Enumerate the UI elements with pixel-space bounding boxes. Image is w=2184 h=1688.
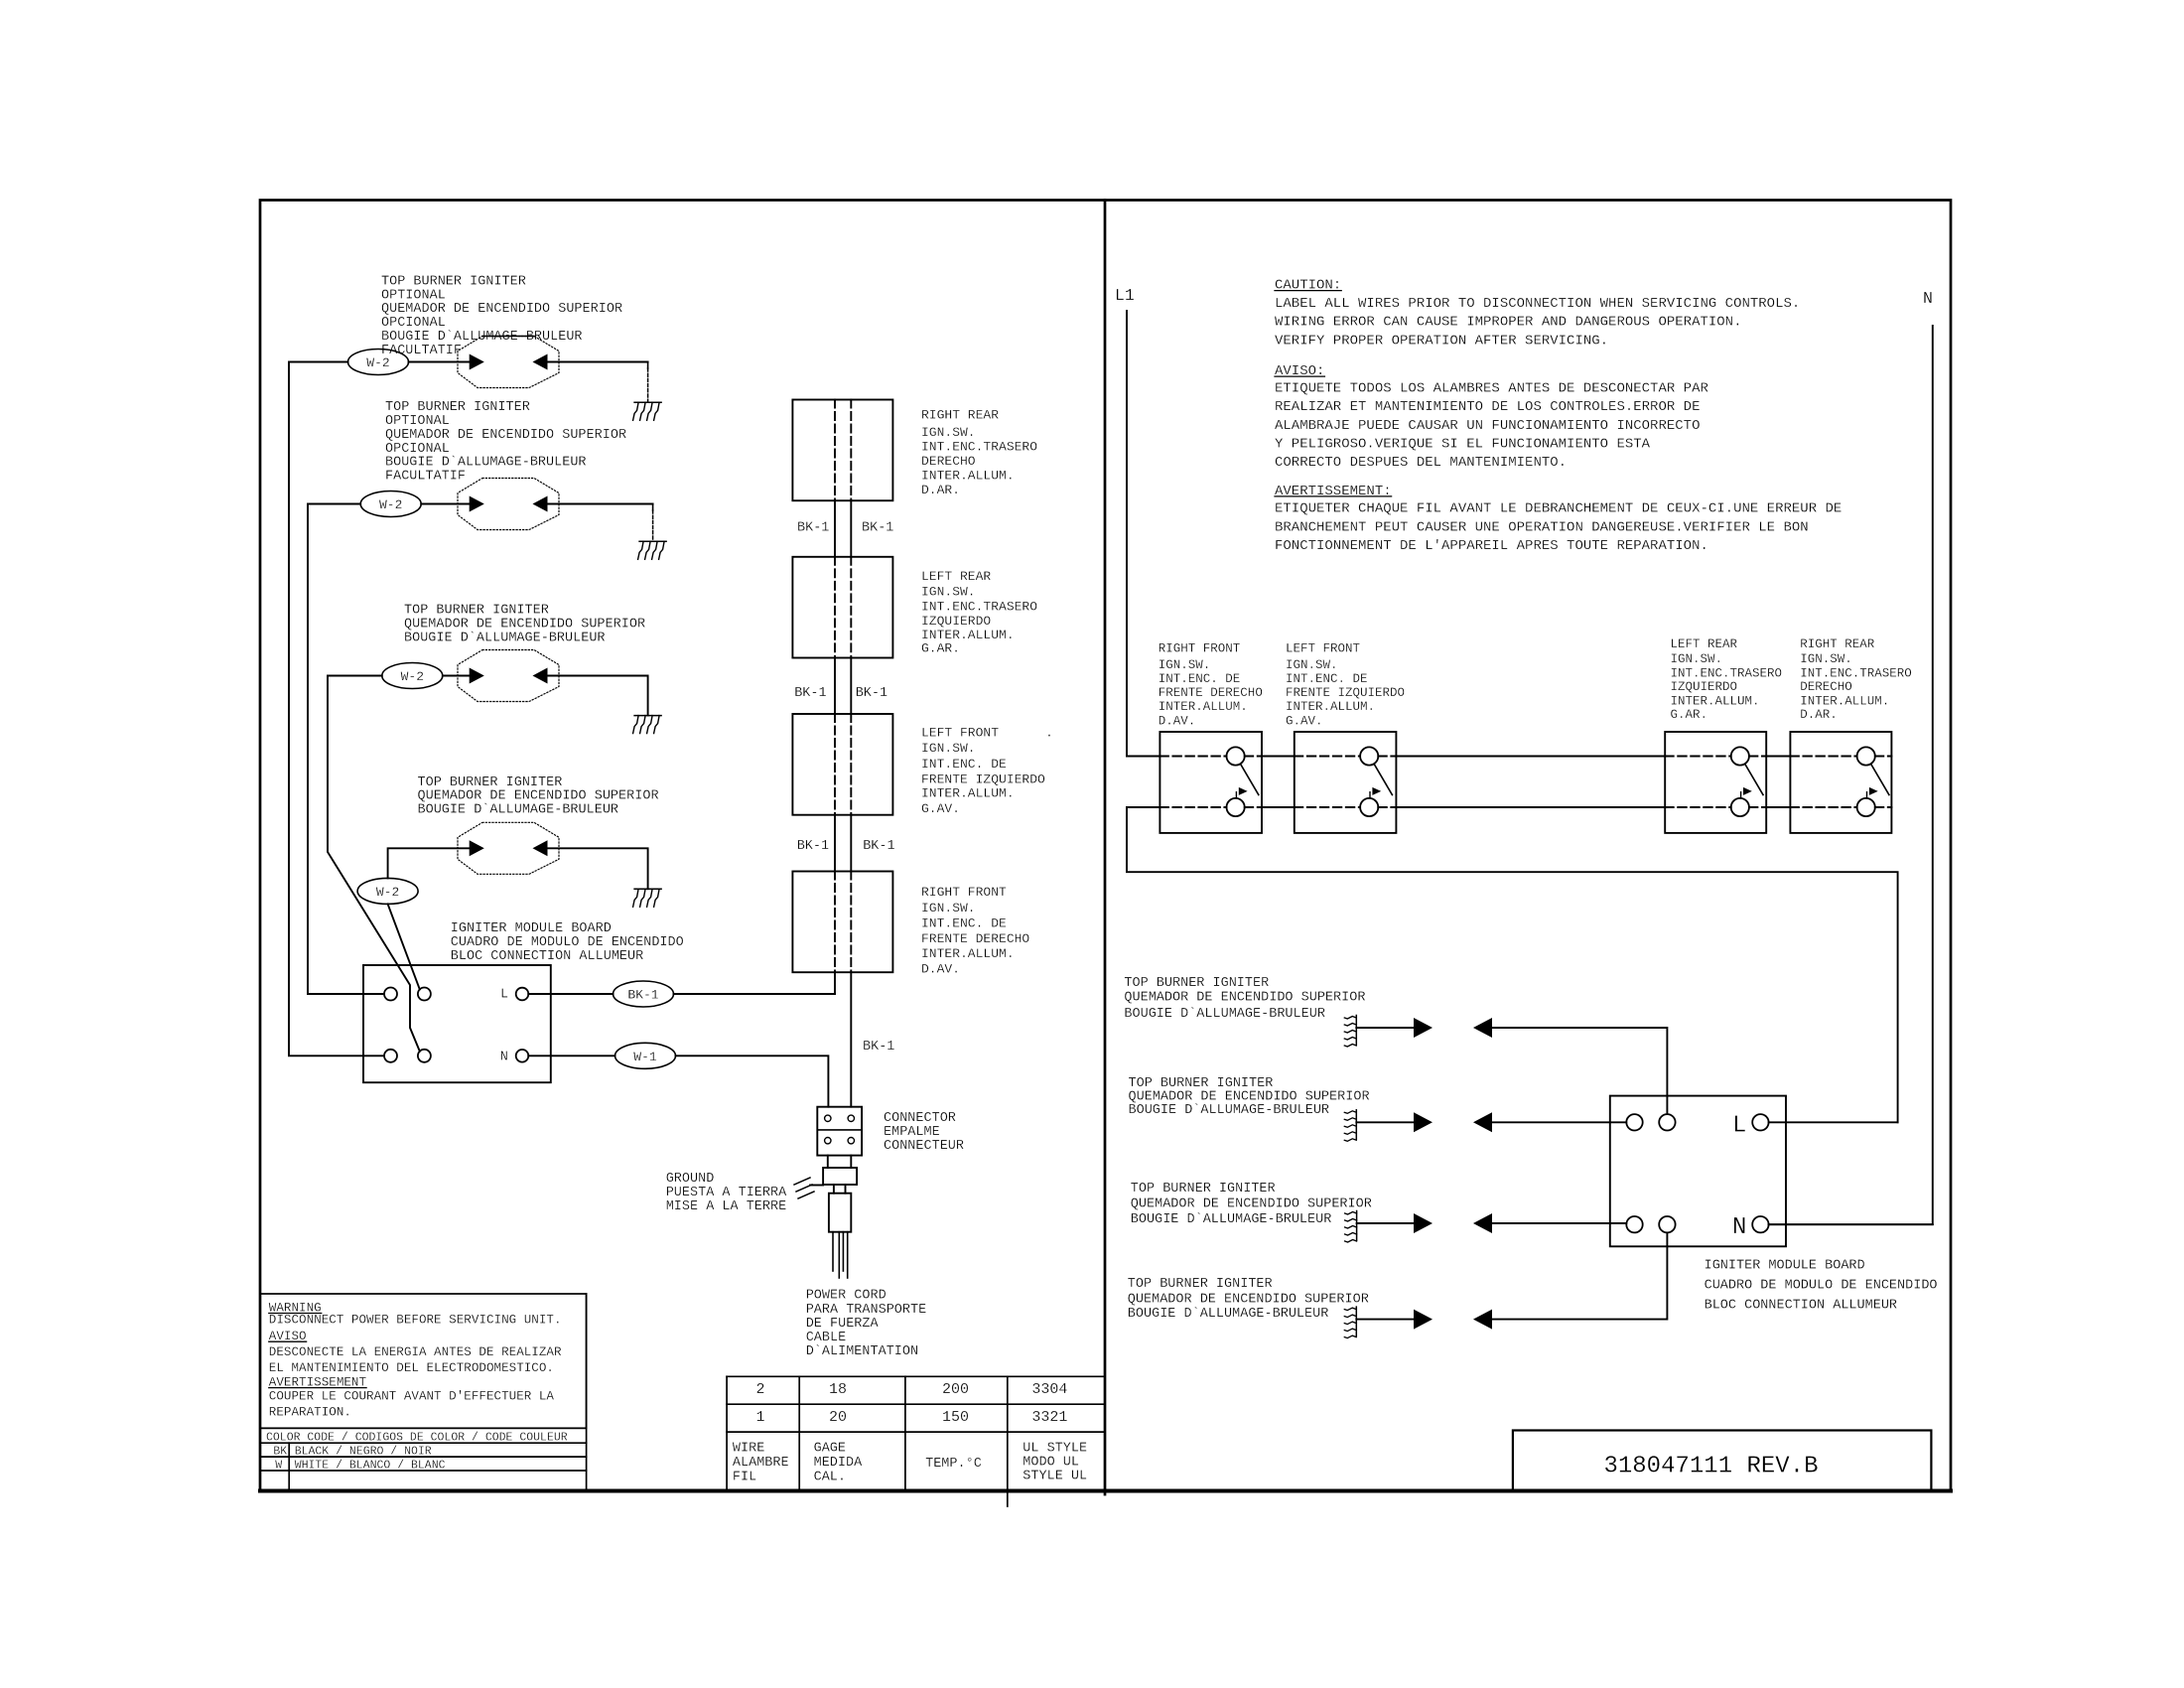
module right terminal col2 top [1659, 1114, 1675, 1130]
wire top row dashed in box [1790, 756, 1856, 758]
svg-text:RIGHT FRONT: RIGHT FRONT [1159, 642, 1241, 656]
svg-text:D.AV.: D.AV. [921, 962, 960, 977]
svg-text:UL STYLE: UL STYLE [1023, 1441, 1087, 1456]
module right terminal col1 top [1626, 1114, 1642, 1130]
svg-text:INT.ENC.TRASERO: INT.ENC.TRASERO [921, 599, 1037, 614]
svg-text:INTER.ALLUM.: INTER.ALLUM. [1286, 700, 1375, 714]
wire top row dashed in box [1295, 756, 1360, 758]
svg-text:OPTIONAL: OPTIONAL [381, 288, 446, 303]
svg-text:PUESTA A TIERRA: PUESTA A TIERRA [666, 1186, 787, 1200]
svg-text:W-2: W-2 [376, 885, 399, 900]
svg-text:W-2: W-2 [379, 497, 402, 512]
svg-text:INT.ENC.TRASERO: INT.ENC.TRASERO [1671, 666, 1783, 680]
wire left column below box 4 to L row [674, 972, 835, 994]
svg-text:IGN.SW.: IGN.SW. [1286, 658, 1338, 672]
svg-text:QUEMADOR DE ENCENDIDO SUPERIOR: QUEMADOR DE ENCENDIDO SUPERIOR [418, 789, 659, 804]
svg-text:BK-1: BK-1 [797, 839, 829, 854]
wire W-1 oval to connector [676, 1055, 829, 1106]
svg-text:20: 20 [829, 1409, 847, 1426]
wire BK-1 dashed through box [834, 557, 836, 658]
svg-text:IGNITER MODULE BOARD: IGNITER MODULE BOARD [451, 921, 612, 936]
svg-text:PARA TRANSPORTE: PARA TRANSPORTE [806, 1303, 927, 1318]
wire L terminal right [1769, 1121, 1898, 1123]
svg-text:CUADRO DE MODULO DE ENCENDIDO: CUADRO DE MODULO DE ENCENDIDO [451, 935, 684, 950]
svg-text:BK-1: BK-1 [627, 988, 658, 1003]
svg-text:FIL: FIL [733, 1470, 756, 1484]
wire ground to spark arrow [1356, 1121, 1414, 1123]
oval W-2 igniter 1 [348, 350, 409, 375]
svg-text:BLOC CONNECTION ALLUMEUR: BLOC CONNECTION ALLUMEUR [451, 949, 643, 964]
svg-text:TOP BURNER IGNITER: TOP BURNER IGNITER [1124, 976, 1269, 991]
svg-text:INTER.ALLUM.: INTER.ALLUM. [1671, 694, 1760, 708]
oval W-2 igniter 2 [360, 492, 421, 517]
wire bottom row solid segments [1127, 806, 1160, 808]
svg-text:200: 200 [942, 1381, 969, 1398]
svg-text:ETIQUETER CHAQUE FIL AVANT LE: ETIQUETER CHAQUE FIL AVANT LE DEBRANCHEM… [1275, 501, 1842, 517]
switch left rear actuator arrow [1740, 792, 1742, 798]
svg-text:CONNECTEUR: CONNECTEUR [884, 1139, 964, 1154]
svg-text:2: 2 [755, 1381, 764, 1398]
svg-text:G.AV.: G.AV. [1286, 715, 1323, 729]
ign. switch right rear box [1790, 732, 1891, 833]
wires connector to ground block [827, 1156, 829, 1168]
svg-text:BOUGIE D`ALLUMAGE-BRULEUR: BOUGIE D`ALLUMAGE-BRULEUR [385, 456, 587, 471]
svg-text:BK-1: BK-1 [794, 686, 826, 701]
svg-text:INTER.ALLUM.: INTER.ALLUM. [921, 946, 1015, 961]
svg-text:TOP BURNER IGNITER: TOP BURNER IGNITER [385, 400, 530, 415]
svg-text:L: L [500, 987, 508, 1002]
wire oval to spark gap 1 [409, 361, 470, 363]
wire L terminal to BK-1 oval [528, 993, 613, 995]
svg-text:IGN.SW.: IGN.SW. [1159, 658, 1211, 672]
spark gap igniter 1 [458, 337, 559, 388]
switch left rear bottom contact [1731, 798, 1749, 816]
oval BK-1 [614, 981, 674, 1007]
switch right front bottom contact [1227, 798, 1245, 816]
svg-text:BK-1: BK-1 [863, 839, 894, 854]
svg-text:FRENTE DERECHO: FRENTE DERECHO [921, 931, 1029, 946]
svg-text:1: 1 [755, 1409, 764, 1426]
switch right rear top contact [1857, 747, 1875, 765]
svg-text:COUPER LE COURANT AVANT D'EFFE: COUPER LE COURANT AVANT D'EFFECTUER LA [269, 1390, 555, 1404]
igniter module board right [1610, 1096, 1786, 1247]
svg-text:COLOR CODE / CODIGOS DE COLOR: COLOR CODE / CODIGOS DE COLOR / CODE COU… [266, 1432, 568, 1445]
svg-text:POWER CORD: POWER CORD [806, 1289, 887, 1304]
plug neck [833, 1185, 835, 1194]
module terminal col1 N row [384, 1050, 397, 1062]
svg-text:INT.ENC.TRASERO: INT.ENC.TRASERO [1800, 666, 1912, 680]
svg-text:FONCTIONNEMENT DE L'APPAREIL A: FONCTIONNEMENT DE L'APPAREIL APRES TOUTE… [1275, 538, 1708, 554]
wire W-2 bus igniter 2 to module L [308, 504, 384, 995]
svg-text:IGN.SW.: IGN.SW. [921, 901, 976, 915]
svg-text:IGN.SW.: IGN.SW. [1800, 652, 1852, 666]
wire BK-1 dashed through box [834, 400, 836, 501]
chassis ground igniter 4 right [1355, 1307, 1357, 1336]
switch right front top contact [1227, 747, 1245, 765]
wire N terminal to W-1 oval [528, 1055, 614, 1056]
color code table [260, 1427, 587, 1429]
svg-text:OPTIONAL: OPTIONAL [385, 414, 450, 429]
svg-text:W: W [275, 1459, 282, 1472]
chassis ground igniter 3 right [1356, 1211, 1358, 1241]
svg-text:WHITE / BLANCO / BLANC: WHITE / BLANCO / BLANC [295, 1459, 446, 1472]
svg-text:BLACK / NEGRO / NOIR: BLACK / NEGRO / NOIR [295, 1445, 432, 1458]
wire W-2 bus igniter 3 to module N col2 [328, 676, 420, 1052]
svg-text:FRENTE IZQUIERDO: FRENTE IZQUIERDO [1286, 686, 1405, 700]
svg-text:MEDIDA: MEDIDA [814, 1456, 864, 1471]
svg-text:D.AV.: D.AV. [1159, 715, 1196, 729]
svg-text:MISE A LA TERRE: MISE A LA TERRE [666, 1199, 787, 1214]
svg-text:ETIQUETE TODOS LOS ALAMBRES AN: ETIQUETE TODOS LOS ALAMBRES ANTES DE DES… [1275, 380, 1708, 396]
svg-text:STYLE UL: STYLE UL [1023, 1470, 1087, 1484]
oval W-2 igniter 3 [382, 663, 443, 689]
svg-text:N: N [500, 1050, 508, 1064]
svg-text:BK-1: BK-1 [863, 1040, 894, 1055]
svg-text:INT.ENC. DE: INT.ENC. DE [1286, 672, 1368, 686]
wire BK-1 oval to switch column [674, 993, 836, 995]
wire ground to spark arrow [1356, 1319, 1414, 1321]
svg-text:L1: L1 [1115, 286, 1135, 305]
spark gap arrows igniter 3 right [1414, 1213, 1433, 1233]
wire oval to spark gap 2 [421, 503, 470, 505]
svg-text:.: . [1045, 725, 1053, 740]
svg-text:DERECHO: DERECHO [1800, 680, 1852, 694]
igniter module board left [363, 965, 551, 1082]
svg-text:DESCONECTE LA ENERGIA ANTES DE: DESCONECTE LA ENERGIA ANTES DE REALIZAR [269, 1345, 562, 1359]
spark gap arrows igniter 2 right [1414, 1112, 1433, 1132]
chassis ground igniter 1 right [1355, 1016, 1357, 1046]
ign. switch left rear box [1665, 732, 1766, 833]
svg-text:FRENTE DERECHO: FRENTE DERECHO [1159, 686, 1263, 700]
spark gap igniter 3 [458, 650, 559, 702]
svg-text:150: 150 [942, 1409, 969, 1426]
chassis ground igniter 3 [634, 715, 661, 717]
wire spark gap 2 to ground [548, 503, 653, 505]
oval W-1 [615, 1043, 676, 1068]
switch right rear actuator arrow [1866, 792, 1868, 798]
chassis ground igniter 4 [634, 888, 661, 890]
svg-text:BOUGIE D`ALLUMAGE-BRULEUR: BOUGIE D`ALLUMAGE-BRULEUR [1128, 1307, 1329, 1322]
wire igniter 3 right to module col1 [1492, 1222, 1626, 1224]
wire top row solid segments [1127, 756, 1160, 758]
svg-text:D.AR.: D.AR. [1800, 708, 1838, 722]
wire spark gap 3 to ground [548, 676, 648, 716]
svg-text:G.AR.: G.AR. [1671, 708, 1708, 722]
svg-text:IZQUIERDO: IZQUIERDO [1671, 680, 1738, 694]
ground block [823, 1168, 857, 1185]
wire igniter 4 right to module col2 [1492, 1232, 1667, 1319]
svg-text:318047111 REV.B: 318047111 REV.B [1603, 1454, 1818, 1480]
svg-text:BK-1: BK-1 [797, 520, 829, 535]
svg-text:INT.ENC. DE: INT.ENC. DE [921, 757, 1007, 772]
svg-text:QUEMADOR DE ENCENDIDO SUPERIOR: QUEMADOR DE ENCENDIDO SUPERIOR [385, 428, 626, 443]
ign. switch box left rear [792, 557, 892, 658]
svg-text:18: 18 [829, 1381, 847, 1398]
wire bottom row dashed in box [1665, 806, 1731, 808]
ign. switch right front box [1160, 732, 1262, 833]
wire spark gap 4 to ground [548, 848, 648, 889]
wire top row dashed in box [1160, 756, 1226, 758]
switch right front blade [1241, 765, 1259, 794]
svg-text:QUEMADOR DE ENCENDIDO SUPERIOR: QUEMADOR DE ENCENDIDO SUPERIOR [404, 617, 645, 632]
svg-text:TOP BURNER IGNITER: TOP BURNER IGNITER [1131, 1182, 1276, 1196]
wire bottom row dashed in box [1160, 806, 1226, 808]
svg-text:D.AR.: D.AR. [921, 483, 960, 497]
svg-text:INTER.ALLUM.: INTER.ALLUM. [921, 785, 1015, 800]
wire between boxes [834, 658, 836, 715]
wire between boxes [834, 500, 836, 557]
svg-text:OPCIONAL: OPCIONAL [381, 316, 446, 331]
wire N terminal right [1769, 1223, 1933, 1225]
svg-text:CABLE: CABLE [806, 1331, 847, 1345]
svg-text:LEFT FRONT: LEFT FRONT [1286, 642, 1361, 656]
svg-text:TOP BURNER IGNITER: TOP BURNER IGNITER [418, 775, 563, 790]
svg-text:Y PELIGROSO.VERIQUE SI EL FUNC: Y PELIGROSO.VERIQUE SI EL FUNCIONAMIENTO… [1275, 437, 1651, 453]
svg-text:WIRING ERROR CAN CAUSE IMPROPE: WIRING ERROR CAN CAUSE IMPROPER AND DANG… [1275, 315, 1741, 331]
svg-text:IGN.SW.: IGN.SW. [921, 585, 976, 600]
svg-text:LEFT FRONT: LEFT FRONT [921, 725, 999, 740]
svg-text:INTER.ALLUM.: INTER.ALLUM. [1800, 694, 1889, 708]
power cord plug body [829, 1194, 851, 1232]
svg-text:EL MANTENIMIENTO DEL ELECTRODO: EL MANTENIMIENTO DEL ELECTRODOMESTICO. [269, 1361, 554, 1375]
svg-text:LEFT REAR: LEFT REAR [921, 569, 991, 584]
switch right rear bottom contact [1857, 798, 1875, 816]
spark gap arrows igniter 4 right [1414, 1310, 1433, 1330]
oval W-2 igniter 4 [357, 878, 418, 904]
svg-text:CAL.: CAL. [814, 1470, 846, 1484]
svg-text:TOP BURNER IGNITER: TOP BURNER IGNITER [1129, 1076, 1274, 1091]
ign. switch left front box [1295, 732, 1397, 833]
wire W-2 bus igniter 1 to module N [289, 362, 384, 1056]
svg-text:IGN.SW.: IGN.SW. [921, 425, 976, 440]
svg-text:QUEMADOR DE ENCENDIDO SUPERIOR: QUEMADOR DE ENCENDIDO SUPERIOR [1131, 1197, 1372, 1212]
wire BK-1 dashed through box [834, 872, 836, 973]
wire BK-1 dashed through box [834, 714, 836, 815]
svg-text:QUEMADOR DE ENCENDIDO SUPERIOR: QUEMADOR DE ENCENDIDO SUPERIOR [1128, 1292, 1369, 1307]
wire L1 bus [1126, 311, 1128, 757]
title block 318047111 REV.B [1513, 1431, 1932, 1491]
svg-text:QUEMADOR DE ENCENDIDO SUPERIOR: QUEMADOR DE ENCENDIDO SUPERIOR [381, 302, 622, 317]
svg-text:REALIZAR ET MANTENIMIENTO DE L: REALIZAR ET MANTENIMIENTO DE LOS CONTROL… [1275, 399, 1700, 415]
svg-text:IGN.SW.: IGN.SW. [1671, 652, 1723, 666]
svg-text:BK: BK [273, 1445, 287, 1458]
svg-text:D`ALIMENTATION: D`ALIMENTATION [806, 1344, 918, 1359]
chassis ground igniter 1 [634, 401, 661, 403]
svg-text:INTER.ALLUM.: INTER.ALLUM. [921, 469, 1015, 484]
power cord pins [832, 1232, 834, 1271]
svg-text:DISCONNECT POWER BEFORE SERVIC: DISCONNECT POWER BEFORE SERVICING UNIT. [269, 1314, 562, 1328]
svg-text:TOP BURNER IGNITER: TOP BURNER IGNITER [1128, 1277, 1273, 1292]
ign. switch box right front [792, 872, 892, 973]
svg-text:BOUGIE D`ALLUMAGE-BRULEUR: BOUGIE D`ALLUMAGE-BRULEUR [418, 803, 619, 818]
svg-text:DERECHO: DERECHO [921, 454, 976, 469]
spark gap arrows igniter 1 right [1414, 1018, 1433, 1038]
wire bottom row dashed in box [1790, 806, 1856, 808]
svg-text:CONNECTOR: CONNECTOR [884, 1111, 956, 1126]
switch left front top contact [1360, 747, 1378, 765]
svg-text:LEFT REAR: LEFT REAR [1671, 637, 1738, 651]
svg-text:ALAMBRE: ALAMBRE [733, 1456, 789, 1471]
svg-text:VERIFY PROPER OPERATION AFTER: VERIFY PROPER OPERATION AFTER SERVICING. [1275, 333, 1608, 349]
svg-text:QUEMADOR DE ENCENDIDO SUPERIOR: QUEMADOR DE ENCENDIDO SUPERIOR [1124, 990, 1365, 1005]
svg-text:BRANCHEMENT PEUT CAUSER UNE OP: BRANCHEMENT PEUT CAUSER UNE OPERATION DA… [1275, 519, 1809, 535]
switch left front bottom contact [1360, 798, 1378, 816]
chassis ground igniter 2 [639, 540, 666, 542]
svg-text:INTER.ALLUM.: INTER.ALLUM. [1159, 700, 1248, 714]
module terminal col1 L row [384, 988, 397, 1001]
wire oval to spark gap 3 [443, 675, 470, 677]
svg-text:TOP BURNER IGNITER: TOP BURNER IGNITER [404, 604, 549, 619]
connector [817, 1107, 862, 1156]
svg-text:CORRECTO DESPUES DEL MANTENIMI: CORRECTO DESPUES DEL MANTENIMIENTO. [1275, 455, 1567, 471]
svg-text:RIGHT REAR: RIGHT REAR [1800, 637, 1875, 651]
svg-text:FACULTATIF: FACULTATIF [385, 470, 466, 485]
svg-text:CUADRO DE MODULO DE ENCENDIDO: CUADRO DE MODULO DE ENCENDIDO [1705, 1279, 1938, 1294]
svg-text:TEMP.°C: TEMP.°C [925, 1457, 982, 1472]
wire igniter 1 right to module col2 [1492, 1028, 1667, 1114]
svg-text:IGNITER MODULE BOARD: IGNITER MODULE BOARD [1705, 1258, 1865, 1273]
svg-text:EMPALME: EMPALME [884, 1125, 940, 1140]
wire bottom row dashed in box [1295, 806, 1360, 808]
svg-text:BOUGIE D`ALLUMAGE-BRULEUR: BOUGIE D`ALLUMAGE-BRULEUR [1131, 1212, 1332, 1227]
svg-text:N: N [1732, 1214, 1746, 1241]
wire spark gap 4 to oval W-2 [388, 848, 470, 878]
wire oval 4 to module L col2 [388, 904, 420, 989]
svg-text:IGN.SW.: IGN.SW. [921, 741, 976, 756]
svg-text:MODO UL: MODO UL [1023, 1456, 1079, 1471]
switch left rear top contact [1731, 747, 1749, 765]
switch right rear blade [1871, 765, 1889, 794]
svg-text:BK-1: BK-1 [856, 686, 887, 701]
switch right front actuator arrow [1235, 792, 1237, 798]
wire right column below box 4 to connector [850, 972, 852, 1106]
wire gauge table [727, 1375, 1105, 1377]
svg-text:GROUND: GROUND [666, 1172, 715, 1187]
chassis ground igniter 2 right [1355, 1110, 1357, 1140]
module right terminal col2 bottom [1659, 1216, 1675, 1232]
wire igniter 2 right to module col1 [1492, 1121, 1626, 1123]
svg-text:L: L [1732, 1112, 1746, 1139]
svg-text:OPCIONAL: OPCIONAL [385, 442, 450, 457]
svg-text:W-2: W-2 [401, 669, 424, 684]
svg-text:FRENTE IZQUIERDO: FRENTE IZQUIERDO [921, 773, 1045, 787]
wire ground to spark arrow [1356, 1027, 1414, 1029]
svg-text:IZQUIERDO: IZQUIERDO [921, 614, 991, 629]
svg-text:BOUGIE D`ALLUMAGE-BRULEUR: BOUGIE D`ALLUMAGE-BRULEUR [1124, 1007, 1325, 1022]
svg-text:ALAMBRAJE PUEDE CAUSAR UN FUNC: ALAMBRAJE PUEDE CAUSAR UN FUNCIONAMIENTO… [1275, 418, 1700, 434]
spark gap igniter 4 [458, 822, 559, 874]
ign. switch box right rear [792, 400, 892, 501]
module right terminal col1 bottom [1626, 1216, 1642, 1232]
svg-text:WIRE: WIRE [733, 1442, 764, 1457]
wire ground to spark arrow [1357, 1222, 1414, 1224]
svg-text:INT.ENC. DE: INT.ENC. DE [921, 916, 1007, 931]
svg-text:BOUGIE D`ALLUMAGE-BRULEUR: BOUGIE D`ALLUMAGE-BRULEUR [404, 631, 606, 645]
switch left front actuator arrow [1369, 792, 1371, 798]
ign. switch box left front [792, 714, 892, 815]
wire between boxes [834, 815, 836, 872]
warning text block [260, 1294, 587, 1428]
svg-text:W-2: W-2 [366, 355, 389, 370]
svg-text:REPARATION.: REPARATION. [269, 1405, 351, 1419]
svg-text:DE FUERZA: DE FUERZA [806, 1317, 880, 1332]
svg-text:G.AV.: G.AV. [921, 801, 960, 816]
svg-text:W-1: W-1 [633, 1050, 657, 1064]
earth ground symbol [794, 1178, 810, 1185]
svg-text:BOUGIE D`ALLUMAGE-BRULEUR: BOUGIE D`ALLUMAGE-BRULEUR [1129, 1103, 1330, 1118]
svg-text:3304: 3304 [1031, 1381, 1067, 1398]
svg-text:INT.ENC. DE: INT.ENC. DE [1159, 672, 1241, 686]
svg-text:RIGHT REAR: RIGHT REAR [921, 408, 999, 423]
svg-text:TOP BURNER IGNITER: TOP BURNER IGNITER [381, 274, 526, 289]
svg-text:G.AR.: G.AR. [921, 641, 960, 656]
module terminal col2 L row [418, 988, 431, 1001]
wire N bus to module N [1769, 326, 1933, 1224]
wire bottom row to L bus [1127, 807, 1898, 1122]
svg-text:GAGE: GAGE [814, 1442, 846, 1457]
wire top row dashed in box [1665, 756, 1731, 758]
svg-text:INT.ENC.TRASERO: INT.ENC.TRASERO [921, 440, 1037, 455]
spark gap igniter 2 [458, 479, 559, 530]
svg-text:RIGHT FRONT: RIGHT FRONT [921, 885, 1007, 900]
svg-text:BLOC CONNECTION ALLUMEUR: BLOC CONNECTION ALLUMEUR [1705, 1299, 1897, 1314]
svg-text:BK-1: BK-1 [862, 520, 893, 535]
svg-text:N: N [1923, 289, 1933, 308]
switch left front blade [1375, 765, 1393, 794]
wire spark gap 1 to ground [548, 361, 648, 363]
svg-text:3321: 3321 [1031, 1409, 1067, 1426]
module terminal col2 N row [418, 1050, 431, 1062]
svg-text:LABEL ALL WIRES PRIOR TO DISCO: LABEL ALL WIRES PRIOR TO DISCONNECTION W… [1275, 296, 1800, 312]
wire earth ground to plug [810, 1185, 823, 1187]
switch left rear blade [1745, 765, 1763, 794]
